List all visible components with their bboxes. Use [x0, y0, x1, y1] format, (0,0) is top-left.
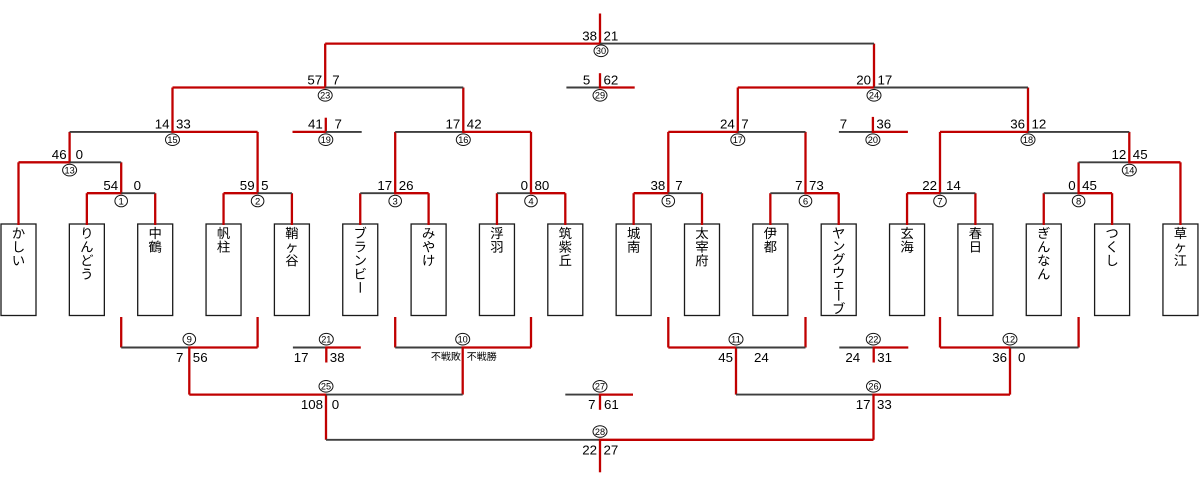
svg-text:21: 21 — [604, 28, 619, 43]
svg-text:7: 7 — [588, 397, 595, 412]
svg-text:0: 0 — [332, 397, 339, 412]
svg-text:4: 4 — [528, 196, 533, 207]
svg-text:17: 17 — [733, 135, 743, 145]
svg-text:12: 12 — [1032, 117, 1047, 132]
svg-text:15: 15 — [167, 135, 177, 145]
svg-text:5: 5 — [666, 196, 671, 207]
svg-text:24: 24 — [845, 350, 860, 365]
svg-text:13: 13 — [65, 165, 75, 175]
svg-text:7: 7 — [937, 196, 942, 207]
svg-text:7: 7 — [795, 178, 802, 193]
svg-text:5: 5 — [583, 72, 590, 87]
svg-text:28: 28 — [595, 427, 605, 437]
svg-text:62: 62 — [604, 72, 619, 87]
svg-text:20: 20 — [868, 135, 878, 145]
svg-text:38: 38 — [330, 350, 345, 365]
svg-text:11: 11 — [731, 335, 741, 345]
svg-text:2: 2 — [255, 196, 260, 207]
svg-text:0: 0 — [134, 178, 141, 193]
svg-text:17: 17 — [856, 397, 871, 412]
svg-text:22: 22 — [922, 178, 937, 193]
svg-text:42: 42 — [467, 117, 482, 132]
svg-text:0: 0 — [1068, 178, 1075, 193]
svg-text:14: 14 — [1124, 165, 1134, 175]
svg-text:17: 17 — [446, 117, 461, 132]
svg-text:7: 7 — [176, 350, 183, 365]
svg-text:7: 7 — [840, 117, 847, 132]
svg-text:21: 21 — [321, 335, 331, 345]
svg-text:36: 36 — [1010, 117, 1025, 132]
svg-text:36: 36 — [992, 350, 1007, 365]
svg-text:7: 7 — [332, 72, 339, 87]
svg-text:10: 10 — [458, 335, 468, 345]
svg-text:7: 7 — [335, 117, 342, 132]
svg-text:17: 17 — [377, 178, 392, 193]
svg-text:45: 45 — [1082, 178, 1097, 193]
svg-text:33: 33 — [176, 117, 191, 132]
svg-text:7: 7 — [741, 117, 748, 132]
svg-text:19: 19 — [321, 135, 331, 145]
svg-text:23: 23 — [320, 91, 330, 101]
svg-text:27: 27 — [604, 442, 619, 457]
svg-text:29: 29 — [595, 91, 605, 101]
svg-text:6: 6 — [803, 196, 808, 207]
svg-text:24: 24 — [869, 91, 879, 101]
svg-text:8: 8 — [1076, 196, 1081, 207]
svg-text:38: 38 — [582, 28, 597, 43]
svg-text:12: 12 — [1005, 335, 1015, 345]
svg-text:17: 17 — [294, 350, 309, 365]
svg-text:61: 61 — [604, 397, 619, 412]
svg-text:73: 73 — [809, 178, 824, 193]
svg-text:59: 59 — [240, 178, 255, 193]
svg-text:24: 24 — [754, 350, 769, 365]
svg-text:16: 16 — [458, 135, 468, 145]
svg-text:41: 41 — [308, 117, 323, 132]
svg-text:30: 30 — [596, 46, 606, 56]
svg-text:36: 36 — [876, 117, 891, 132]
svg-text:12: 12 — [1112, 147, 1127, 162]
svg-text:80: 80 — [535, 178, 550, 193]
svg-text:0: 0 — [1018, 350, 1025, 365]
svg-text:24: 24 — [720, 117, 735, 132]
svg-text:18: 18 — [1023, 135, 1033, 145]
svg-text:26: 26 — [868, 382, 878, 392]
svg-text:25: 25 — [321, 382, 331, 392]
svg-text:54: 54 — [103, 178, 118, 193]
svg-text:38: 38 — [651, 178, 666, 193]
svg-text:33: 33 — [877, 397, 892, 412]
svg-text:17: 17 — [878, 72, 893, 87]
svg-text:22: 22 — [582, 442, 597, 457]
svg-text:5: 5 — [261, 178, 268, 193]
svg-text:0: 0 — [76, 147, 83, 162]
svg-text:57: 57 — [307, 72, 322, 87]
svg-text:108: 108 — [301, 397, 323, 412]
svg-text:20: 20 — [856, 72, 871, 87]
svg-text:14: 14 — [155, 117, 170, 132]
svg-text:45: 45 — [718, 350, 733, 365]
svg-text:0: 0 — [521, 178, 528, 193]
svg-text:56: 56 — [193, 350, 208, 365]
svg-text:9: 9 — [187, 335, 192, 346]
svg-text:1: 1 — [119, 196, 124, 207]
svg-text:3: 3 — [393, 196, 398, 207]
svg-text:7: 7 — [675, 178, 682, 193]
svg-text:27: 27 — [595, 382, 605, 392]
svg-text:46: 46 — [52, 147, 67, 162]
svg-text:14: 14 — [946, 178, 961, 193]
svg-text:45: 45 — [1133, 147, 1148, 162]
svg-text:22: 22 — [868, 335, 878, 345]
svg-text:31: 31 — [877, 350, 892, 365]
svg-text:26: 26 — [399, 178, 414, 193]
